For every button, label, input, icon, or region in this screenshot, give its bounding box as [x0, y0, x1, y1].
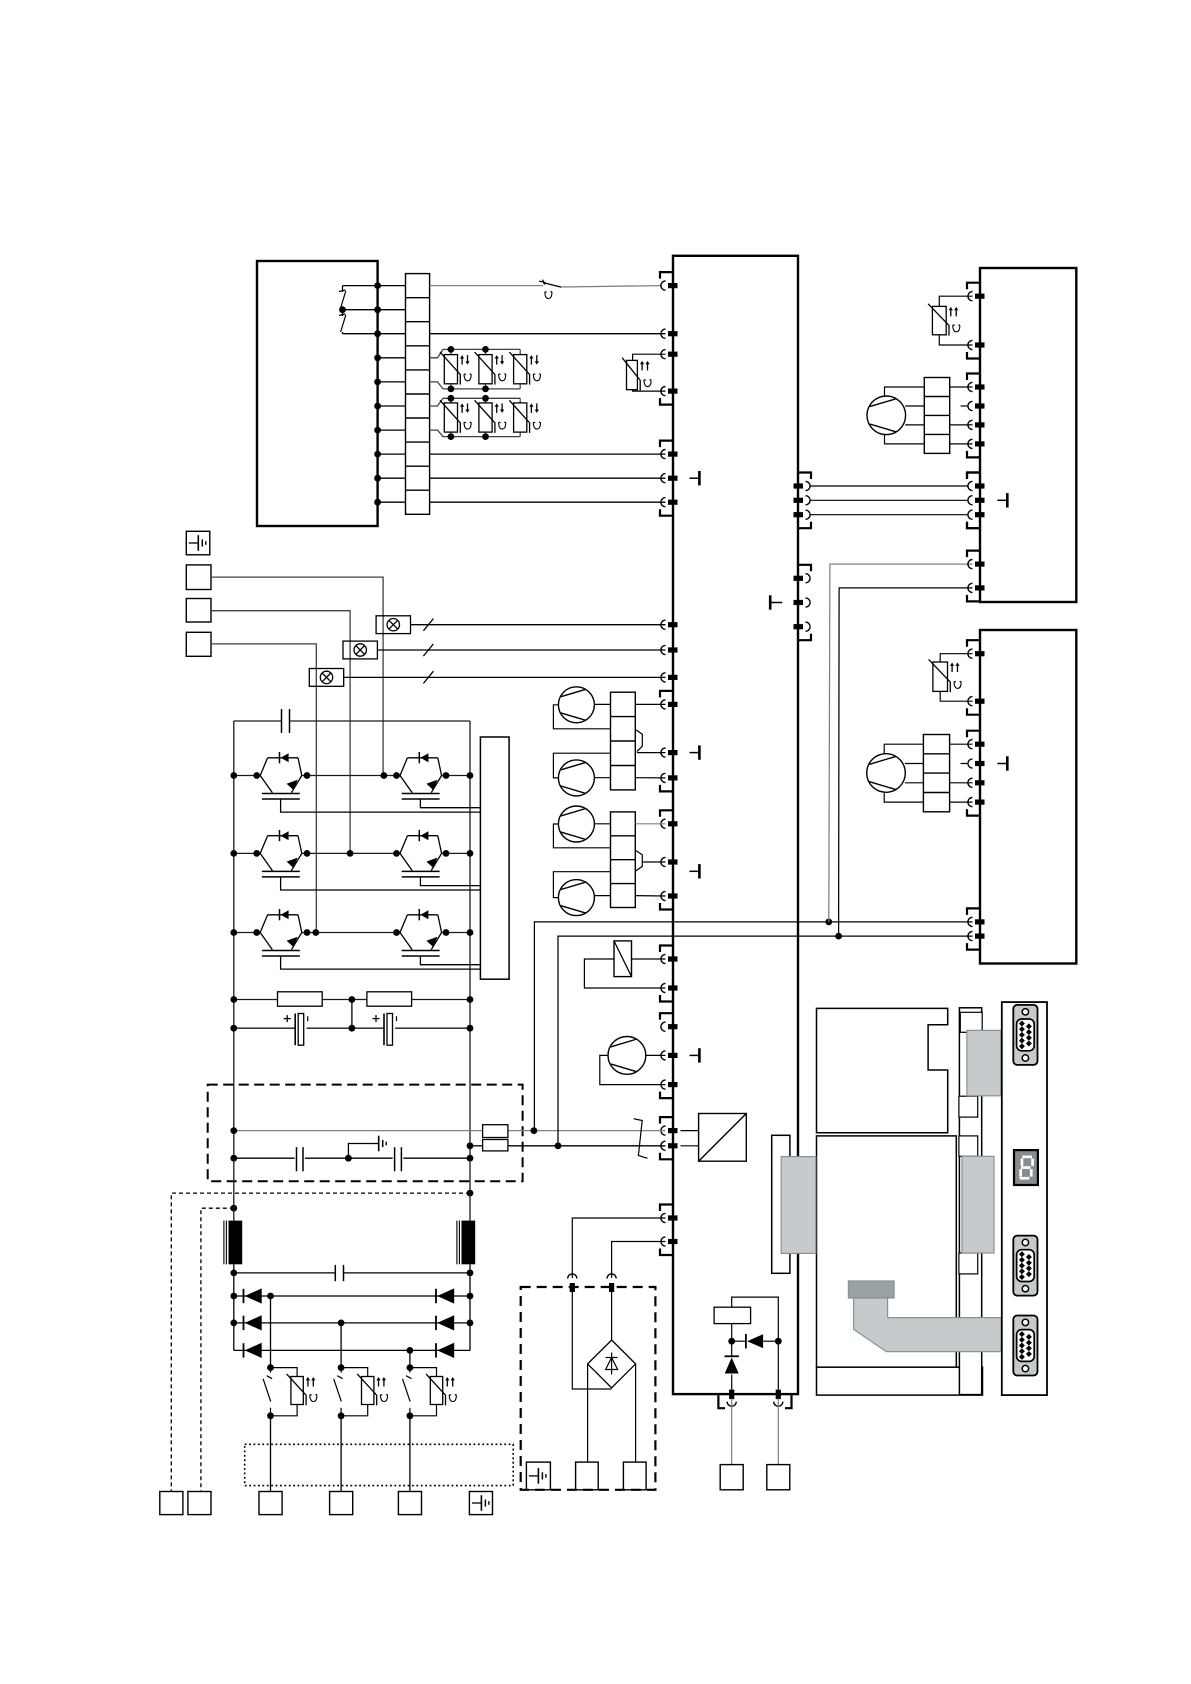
pin: main PCB CN @677 [661, 673, 666, 682]
console: cap r4 [959, 1253, 978, 1274]
ground terminal box [186, 531, 210, 555]
pin: main PCB CN @286 [661, 281, 666, 290]
console: display unit [817, 1136, 957, 1367]
wire: power line to PCB [430, 453, 666, 455]
bracket: connector [660, 903, 673, 910]
thermistor TH1 [633, 354, 666, 360]
wire: varistor bus1 bottom jog [430, 382, 521, 389]
wire: T3 feed [211, 644, 316, 933]
wire: TB1 row4 to strip [378, 357, 406, 359]
terminal strip X1 [406, 274, 430, 515]
bracket: connector [660, 1092, 673, 1099]
bracket: connector [660, 1013, 673, 1020]
node: bus2 junctions [448, 395, 455, 402]
bracket: connector [967, 908, 980, 915]
node: row 1 junctions [230, 772, 237, 779]
pin: main PCB CN @1085 [661, 1080, 666, 1089]
console: cap r2 [959, 1096, 978, 1117]
gate connector CN-G [480, 737, 509, 979]
overload protector @270 [270, 1296, 272, 1368]
pin: B2 CN @764 [968, 759, 973, 768]
wire: phase row 1 [234, 775, 260, 777]
fuse F21 [714, 1307, 751, 1323]
console: bottom plate [817, 1367, 983, 1395]
capacitor C0 [281, 709, 283, 733]
connector CN-C (DB9) [1013, 1316, 1037, 1376]
wire: B2 strip out3 [950, 782, 973, 784]
node: TB1 row10 [374, 499, 381, 506]
wire: diode row 1 [234, 1295, 470, 1297]
wire: M3b loop [553, 753, 610, 778]
connector CN-B (DB9) [1013, 1236, 1037, 1296]
wire: DC bus top link [234, 720, 282, 722]
pin: main PCB CN @454 [661, 450, 666, 459]
pin: main PCB CN @650 [661, 645, 666, 654]
pin: main PCB CN @896 [661, 891, 666, 900]
wire: M2-c1 [884, 744, 923, 754]
lamp H2 [343, 641, 377, 659]
wire: DC input [681, 1130, 699, 1132]
wire: M1-c2 [905, 405, 924, 407]
terminal P1 [576, 1462, 599, 1490]
terminal T2 [186, 599, 211, 623]
wire: surge left [731, 1324, 733, 1342]
wire: DC bus P [233, 721, 235, 1158]
bracket: connector [967, 595, 980, 602]
pin: main PCB CN @959 [661, 954, 666, 963]
bracket: connector [660, 810, 673, 817]
node: r-row [230, 996, 237, 1003]
fuse F11 [483, 1125, 508, 1138]
resistor R1 [278, 992, 323, 1006]
diode D2 [435, 1289, 437, 1303]
wire: H3 to PCB [344, 676, 666, 678]
fan M2 [867, 754, 906, 793]
terminal strip X-B2 [923, 735, 949, 812]
wire: TB1 row5 to strip [378, 381, 406, 383]
bracket: connector [967, 473, 980, 480]
node: TB1 row1 [374, 282, 381, 289]
pin: B1 CN @406 [968, 401, 973, 410]
pin: main PCB right CN2 @627 [806, 622, 811, 631]
pin: inline CN [607, 1274, 616, 1279]
frame ground mark [997, 763, 1006, 765]
ground terminal box [526, 1462, 550, 1490]
wire: cap row2 [234, 1272, 335, 1274]
bracket: connector [967, 551, 980, 558]
pin: B2 CN @936 [968, 932, 973, 941]
bracket: connector [660, 398, 673, 405]
choke L1 [229, 1221, 243, 1265]
capacitor C1 [284, 1018, 291, 1020]
pin: B1 CN @515 [968, 510, 973, 519]
wire: row3 to PCB [430, 333, 666, 335]
terminal N1 [720, 1465, 743, 1490]
wire: TB1 row10 to strip [378, 501, 406, 503]
bracket: connector [967, 640, 980, 647]
IGBT Q1 [260, 758, 267, 776]
wire: X-F2 out1 (gray) [635, 823, 665, 825]
terminal W [398, 1492, 421, 1515]
node: bus1 junctions [448, 346, 455, 353]
wire: M2-c3 [905, 782, 924, 784]
pin: main PCB right CN2 @602 [806, 598, 811, 607]
node: cap row2 [230, 1270, 237, 1277]
wire: filter line1 (gray) [234, 1130, 483, 1132]
contact S1b [339, 314, 346, 316]
wire: M1-c1 [885, 387, 925, 396]
bracket: connector [718, 1395, 725, 1408]
wire: X-F2 out4 [635, 895, 665, 897]
IGBT Q4 [400, 836, 407, 854]
pin: main PCB CN @625 [661, 620, 666, 629]
bracket: connector [660, 691, 673, 698]
bracket: connector [967, 522, 980, 529]
wire: H2 to PCB [377, 649, 665, 651]
bracket: connector [967, 708, 980, 715]
bracket: connector [967, 283, 980, 290]
wire: relay loop [632, 958, 666, 960]
wire: M4a loop [553, 824, 610, 848]
pin: B2 CN @922 [968, 917, 973, 926]
ground terminal box [469, 1492, 492, 1515]
bracket: connector [798, 565, 811, 572]
fan M3a [558, 687, 594, 723]
connector CN-A (DB9) [1013, 1005, 1037, 1065]
pin: B2 CN @701 [968, 697, 973, 706]
wire: X-F2 out3 [642, 861, 665, 863]
terminal T1 [186, 565, 211, 590]
bracket: connector [660, 1249, 673, 1256]
pin: main PCB CN @502 [661, 498, 666, 507]
terminal strip X-F1 [611, 692, 636, 790]
node: aux junctions [825, 919, 832, 926]
pin: B2 CN @783 [968, 778, 973, 787]
stub: unused pin B2 [961, 763, 968, 765]
pin: main PCB CN @753 [661, 748, 666, 757]
fan M5 [608, 1037, 646, 1075]
wire: M3a right [594, 703, 610, 705]
wire: X-F1 out3 [637, 752, 666, 754]
fuse F12 [483, 1140, 508, 1151]
frame ground mark [690, 752, 699, 754]
bracket: connector [660, 1117, 673, 1124]
wire: varistor bus2 top jog [430, 398, 521, 406]
wire: M1-c4 [885, 434, 925, 444]
wire: phase row 2 [234, 852, 260, 854]
IGBT Q5 [260, 915, 267, 933]
mark: 2-conductor slash [634, 1119, 648, 1159]
node: TB1 row7 [374, 427, 381, 434]
bracket: connector [967, 374, 980, 381]
wire: bridge AC1 [572, 1218, 665, 1278]
diode D5 [243, 1343, 245, 1357]
capacitor C4 [394, 1147, 396, 1171]
node: row 3 junctions [230, 929, 237, 936]
node: line1 taps [230, 1127, 237, 1134]
wire: TB1 row1 to strip [378, 285, 406, 287]
wire: X-F1 out1 [635, 703, 665, 705]
wire: B1 feed gray [829, 564, 973, 922]
pin: main PCB CN @704 [661, 700, 666, 709]
thermistor TH-B1 [939, 296, 972, 306]
wire: M4a right [594, 823, 610, 825]
bracket: connector [967, 731, 980, 738]
bracket: connector [660, 995, 673, 1002]
wire: cap link [234, 1157, 295, 1159]
wire: M2-c2 [905, 763, 924, 765]
wire: B2 strip out1 [950, 743, 973, 745]
key bump X-F2 [635, 850, 642, 871]
IGBT Q3 [260, 836, 267, 854]
fan M3b [558, 760, 594, 796]
pin: main PCB CN @1027 [661, 1022, 666, 1031]
wire: fan M5 leads [646, 1054, 666, 1056]
block: fan unit 1 PCB [980, 268, 1076, 602]
wire: aux line B [558, 936, 973, 1146]
wire: dashed link1 [171, 1193, 470, 1491]
fan M4b [558, 880, 594, 916]
frame ground mark [690, 870, 699, 872]
lamp H1 [376, 616, 410, 634]
diode D3 [243, 1316, 245, 1330]
terminal U [259, 1492, 282, 1515]
varistor ZNR11 [450, 349, 452, 354]
choke L2 [462, 1221, 476, 1265]
wire: H1 to PCB [411, 624, 666, 626]
wire: earth branch [348, 1144, 369, 1159]
wire: contact chain row1 [343, 285, 378, 287]
overload protector @341 [340, 1323, 342, 1368]
pin: main PCB right CN @486 [806, 481, 811, 490]
varistor ZNR13 [519, 349, 521, 354]
wire: dashed link2 [201, 1208, 234, 1491]
pin: main PCB right CN @515 [806, 510, 811, 519]
node: TB1 row3 [374, 330, 381, 337]
node: TB1 row4 [374, 354, 381, 361]
resistor R2 [367, 992, 412, 1006]
diode D6 [435, 1343, 437, 1357]
pin: main PCB bottom CN @732 [727, 1402, 736, 1407]
wire: to terminal N1 [731, 1399, 733, 1465]
terminal V [330, 1492, 353, 1515]
pin: main PCB right CN2 @578 [806, 574, 811, 583]
fan M1 [867, 396, 906, 435]
pin: main PCB CN @478 [661, 474, 666, 483]
pin: main PCB CN @988 [661, 983, 666, 992]
bracket: connector [660, 1205, 673, 1212]
bracket: connector [967, 352, 980, 359]
wire: TB1 row3 to strip [378, 333, 406, 335]
capacitor C3 [296, 1147, 298, 1171]
wire: M3a loop [553, 705, 610, 729]
pin: B1 CN @296 [968, 292, 973, 301]
pin: B1 CN @500 [968, 496, 973, 505]
pin: main PCB CN @1055 [661, 1051, 666, 1060]
wire: M1-c3 [905, 424, 924, 426]
enclosure: rectifier unit (dashed) [521, 1287, 656, 1490]
console: connector blk mid [962, 1156, 994, 1253]
wire: bus N down [469, 1158, 471, 1220]
wire: B1 strip out3 [950, 424, 973, 426]
node: TB1 row2 [374, 306, 381, 313]
wire: aux line A [534, 922, 972, 1131]
wire: contact chain row2 [343, 309, 378, 311]
bracket: connector [967, 473, 980, 480]
wire: contact chain row3 [342, 332, 344, 334]
capacitor C2 [373, 1018, 380, 1020]
console: connector blk top [967, 1030, 1001, 1095]
wire: bridge AC2b [611, 1292, 613, 1340]
bracket: connector [967, 943, 980, 950]
varistor ZNR12 [485, 349, 487, 354]
DC/DC converter U10 [699, 1114, 747, 1162]
node: link1 [467, 1190, 474, 1197]
bracket: connector [785, 1395, 792, 1408]
pin: main PCB CN @354 [661, 350, 666, 359]
wire: surge link [732, 1340, 746, 1342]
pin: B1 CN @345 [968, 340, 973, 349]
contact S1a [339, 290, 346, 292]
mark: conductor slash [423, 644, 433, 656]
fan M4a [558, 806, 594, 842]
IGBT Q2 [400, 758, 407, 776]
wire: bridge out2 [635, 1364, 637, 1462]
stub: unused pin B1 [961, 405, 968, 407]
frame ground mark [997, 499, 1006, 501]
wire: M3b right [594, 777, 610, 779]
node: link2 [230, 1205, 237, 1212]
overload protector @410 [409, 1350, 411, 1367]
bracket: connector [798, 473, 811, 480]
wire: power line to PCB [430, 501, 666, 503]
console: front panel [1002, 1002, 1047, 1395]
wire: varistor bus2 bottom jog [430, 430, 521, 437]
pin: B1 CN @588 [968, 583, 973, 592]
IGBT Q6 [400, 915, 407, 933]
wire: bus P down [233, 1158, 235, 1220]
wire: B1 strip out4 [950, 443, 973, 445]
display: 7-segment [1014, 1150, 1038, 1185]
earth symbol [369, 1143, 379, 1145]
wire: T2 feed [211, 611, 350, 854]
wire: TB1 row7 to strip [378, 429, 406, 431]
pin: inline CN [568, 1274, 577, 1279]
wire: B1 feed black [839, 588, 973, 936]
console: cap r1 [960, 1012, 982, 1032]
diode D12 [725, 1355, 739, 1357]
node: cap link [230, 1155, 237, 1162]
pin: main PCB CN @778 [661, 773, 666, 782]
bridge rectifier DB1 [588, 1340, 636, 1388]
pin: B1 CN @564 [968, 560, 973, 569]
frame ground mark [690, 477, 699, 479]
bracket: connector [967, 451, 980, 458]
node: c-row [230, 1025, 237, 1032]
pin: B1 CN @425 [968, 420, 973, 429]
diode D11 [745, 1334, 747, 1348]
console: ribbon cable [854, 1298, 1002, 1352]
lamp H3 [309, 669, 343, 687]
varistor ZNR21 [450, 398, 452, 403]
node: chain mid [339, 306, 346, 313]
console: stack board left [772, 1135, 790, 1273]
wire: varistor bus1 top jog [430, 349, 521, 357]
block: main control PCB [673, 256, 798, 1394]
mark: conductor slash [423, 671, 433, 683]
wire: surge top [732, 1297, 779, 1341]
bracket: connector [660, 272, 673, 279]
wire: bus N down2 [469, 1264, 471, 1350]
bracket: connector [798, 634, 811, 641]
pin: main PCB CN @1131 [661, 1126, 666, 1135]
wire: balance mid [351, 1000, 353, 1029]
wire: bridge AC2 [612, 1242, 666, 1279]
wire: filter line2 [470, 1145, 483, 1147]
wire: L1 line (gray) [430, 285, 543, 287]
block: fan unit 2 PCB [980, 630, 1076, 964]
wire: TB1 row6 to strip [378, 405, 406, 407]
wire: TB1 row9 to strip [378, 477, 406, 479]
wire: X-F1 out4 [635, 777, 665, 779]
pin: main PCB CN @391 [661, 387, 666, 396]
wire: T1 feed [211, 577, 383, 775]
node: row 2 junctions [230, 850, 237, 857]
diode D1 [243, 1289, 245, 1303]
bracket: connector [660, 946, 673, 953]
pin: B1 CN @387 [968, 382, 973, 391]
node: TB1 row6 [374, 403, 381, 410]
terminal P2 [623, 1462, 646, 1490]
thermal protector F1 [543, 280, 545, 285]
console: upper unit [817, 1008, 948, 1132]
pin: main PCB CN @824 [661, 819, 666, 828]
node: surge [728, 1338, 735, 1345]
wire: 3-wire bus [811, 485, 968, 487]
wire: M2-c4 [884, 792, 923, 802]
wire: balance row1 [234, 999, 470, 1001]
wire: bus P down2 [233, 1264, 235, 1350]
wire: TB1 row8 to strip [378, 453, 406, 455]
terminal strip X-B1 [924, 378, 949, 454]
pin: main PCB CN @1146 [661, 1141, 666, 1150]
wire: L1 line to PCB [561, 286, 661, 287]
capacitor C5 [334, 1265, 336, 1281]
pin: B2 CN @802 [968, 798, 973, 807]
wire: M4b loop [553, 872, 610, 898]
bracket: connector [660, 785, 673, 792]
block: terminal box TB1 [257, 261, 378, 526]
pin: main PCB CN @1218 [661, 1213, 666, 1222]
console: connector blk left [781, 1157, 816, 1254]
frame ground mark (mirrored) [769, 595, 772, 609]
bracket: connector [967, 522, 980, 529]
wire: TB1 row2 to strip [378, 309, 406, 311]
pin: main PCB right CN @500 [806, 496, 811, 505]
wire: surge down [731, 1375, 733, 1390]
pin: main PCB CN @1242 [661, 1237, 666, 1246]
pin: B1 CN @444 [968, 439, 973, 448]
wire: to terminal N2 [777, 1399, 779, 1465]
key bump X-F1 [635, 730, 642, 752]
wire: bridge AC1b [572, 1292, 611, 1389]
wire: B1 strip out1 [950, 386, 973, 388]
frame ground mark [690, 1054, 699, 1056]
bracket: connector [660, 509, 673, 516]
pin: main PCB bottom CN @778 [774, 1402, 783, 1407]
wire: cap row [234, 1027, 295, 1029]
node: TB1 row5 [374, 379, 381, 386]
